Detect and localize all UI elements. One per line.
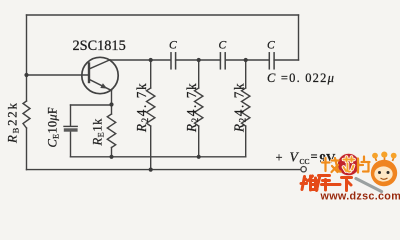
svg-text:R24. 7k: R24. 7k bbox=[134, 82, 150, 133]
svg-text:C =0. 022μ: C =0. 022μ bbox=[267, 71, 335, 85]
svg-text:www.dzsc.com: www.dzsc.com bbox=[320, 191, 400, 202]
svg-text:=: = bbox=[311, 150, 318, 164]
svg-text:2SC1815: 2SC1815 bbox=[73, 38, 126, 54]
svg-text:+: + bbox=[276, 151, 283, 165]
svg-text:RE1k: RE1k bbox=[91, 118, 106, 147]
svg-text:R24. 7k: R24. 7k bbox=[232, 82, 248, 133]
svg-text:R24. 7k: R24. 7k bbox=[184, 82, 200, 133]
svg-text:CE10μF: CE10μF bbox=[46, 107, 61, 148]
svg-text:C: C bbox=[219, 40, 227, 52]
svg-text:RB22k: RB22k bbox=[6, 101, 21, 144]
svg-text:C: C bbox=[267, 40, 275, 52]
svg-text:C: C bbox=[169, 40, 177, 52]
svg-text:CC: CC bbox=[300, 157, 310, 166]
